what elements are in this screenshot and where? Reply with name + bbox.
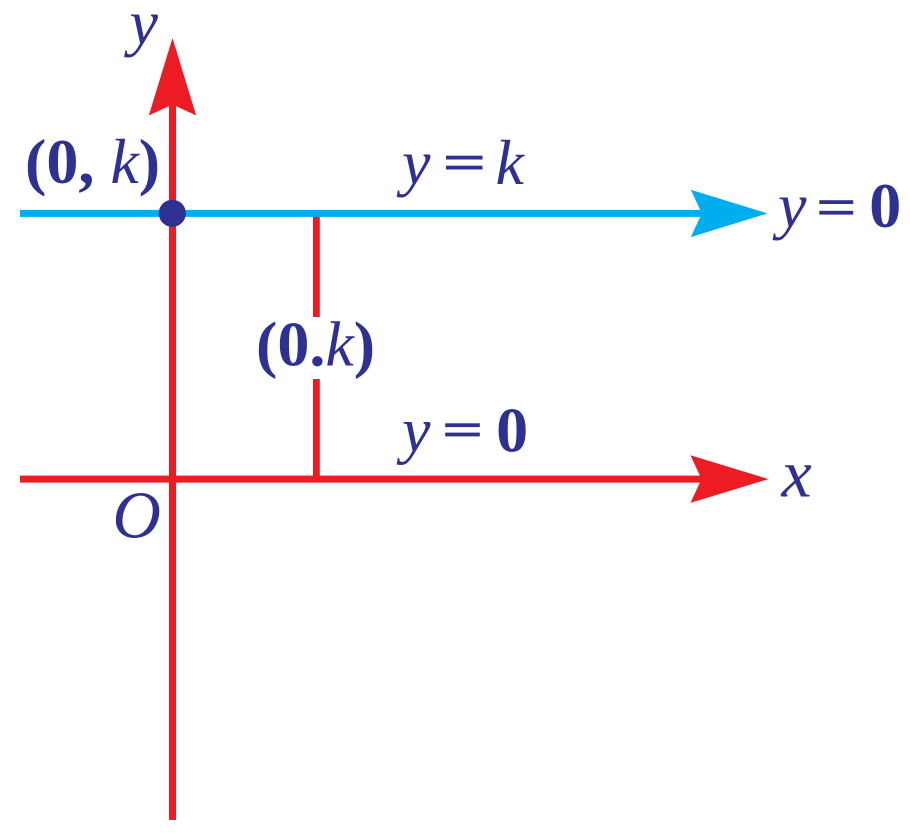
- ordinate segment from line y=k down to x-axis (lower stub): [313, 379, 320, 480]
- svg-text:(0, k): (0, k): [25, 126, 160, 197]
- svg-text:(0.k): (0.k): [256, 309, 375, 380]
- y-axis shaft: [169, 95, 176, 820]
- svg-text:y: y: [772, 170, 807, 241]
- label x (x-axis): [781, 435, 812, 511]
- svg-text:y: y: [396, 127, 431, 198]
- svg-text:O: O: [113, 479, 161, 553]
- label (0.k): [256, 309, 375, 380]
- label y = 0 (above x-axis): [396, 394, 528, 465]
- svg-text:x: x: [781, 435, 812, 511]
- svg-text:y: y: [124, 0, 159, 58]
- x-axis arrowhead: [691, 455, 769, 503]
- line y=k arrowhead: [691, 190, 768, 237]
- svg-text:y: y: [396, 394, 431, 465]
- label y = 0 (right of line y=k): [772, 170, 901, 241]
- x-axis shaft: [20, 476, 720, 483]
- label O (origin): [113, 479, 161, 553]
- point (0,k) dot: [159, 200, 186, 227]
- label (0, k): [25, 126, 160, 197]
- svg-text:0: 0: [869, 170, 901, 241]
- svg-text:0: 0: [496, 394, 528, 465]
- line y=k shaft: [20, 210, 710, 217]
- y-axis arrowhead: [149, 38, 196, 116]
- label y = k: [396, 127, 526, 198]
- label y (y-axis): [124, 0, 159, 58]
- ordinate segment from line y=k down to x-axis (upper stub): [313, 213, 320, 317]
- svg-text:k: k: [496, 127, 526, 198]
